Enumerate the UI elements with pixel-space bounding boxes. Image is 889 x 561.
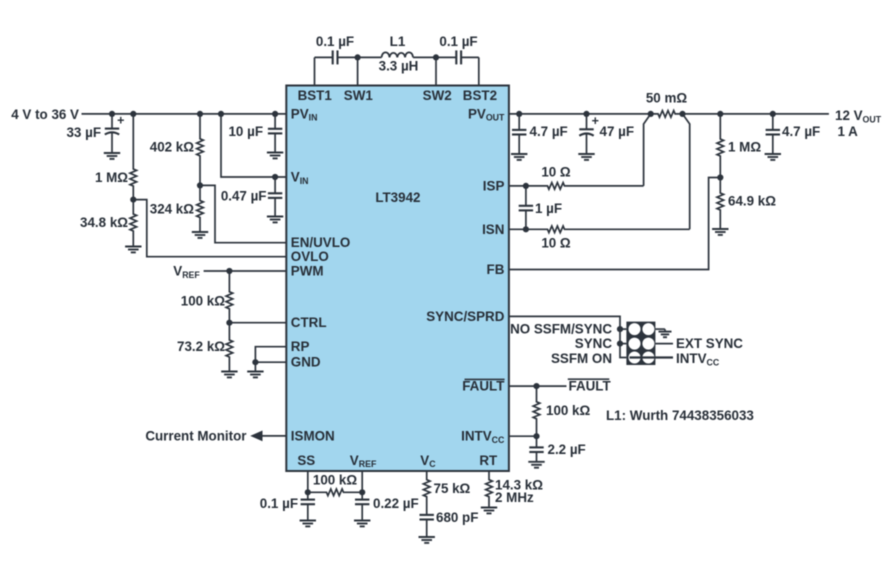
label INTVCC node bbox=[676, 351, 720, 367]
node R11-R12 junction bbox=[717, 174, 723, 180]
pin label GND bbox=[291, 355, 321, 370]
IC name label LT3942 bbox=[375, 190, 420, 205]
capacitor C9 4.7uF bbox=[512, 114, 526, 154]
svg-text:L1: Wurth 74438356033: L1: Wurth 74438356033 bbox=[606, 408, 754, 423]
wire BST2 stub bbox=[478, 57, 480, 85]
pin label ISMON bbox=[291, 428, 335, 443]
svg-text:0.1 µF: 0.1 µF bbox=[439, 34, 477, 49]
node rail junction at R3 bbox=[197, 111, 203, 117]
label R4 324k bbox=[150, 202, 195, 217]
resistor R2 34.8k bbox=[130, 200, 137, 247]
capacitor C10 47uF polarized bbox=[579, 114, 593, 154]
pin label VIN bbox=[291, 170, 309, 186]
pin label ISP bbox=[483, 178, 505, 193]
svg-text:0.47 µF: 0.47 µF bbox=[221, 189, 267, 204]
label VREF node bbox=[173, 264, 200, 280]
label R13 10 Ohm bbox=[541, 165, 571, 180]
op-amp U1 LT3942 regulator IC body bbox=[286, 86, 509, 472]
svg-text:ISP: ISP bbox=[483, 178, 505, 193]
svg-text:402 kΩ: 402 kΩ bbox=[150, 140, 195, 155]
ground under C13 bbox=[528, 462, 544, 468]
svg-text:2 MHz: 2 MHz bbox=[495, 490, 534, 505]
label R9 14.3k bbox=[495, 478, 543, 493]
svg-text:64.9 kΩ: 64.9 kΩ bbox=[728, 194, 776, 209]
label L1 value 3.3uH bbox=[379, 59, 419, 74]
ground under C9 bbox=[511, 154, 527, 160]
svg-text:ISN: ISN bbox=[482, 222, 504, 237]
ground under C12 bbox=[765, 154, 781, 160]
node INTVCC junction bbox=[533, 433, 539, 439]
pin label ISN bbox=[482, 222, 504, 237]
wire ISP kelvin bbox=[644, 114, 651, 186]
resistor R5 100k bbox=[226, 271, 233, 323]
ground under C4 bbox=[267, 153, 283, 159]
wire VIN branch bbox=[221, 114, 286, 177]
svg-text:SSFM ON: SSFM ON bbox=[551, 351, 612, 366]
svg-text:10 Ω: 10 Ω bbox=[541, 236, 571, 251]
wire SW1 to L1 bbox=[358, 56, 382, 58]
label C4 10uF bbox=[228, 124, 263, 139]
pin label SS bbox=[297, 453, 315, 468]
capacitor C6 0.1uF on SS bbox=[301, 492, 315, 520]
node PWM junction bbox=[226, 268, 232, 274]
wire stub EXT SYNC bbox=[655, 343, 673, 345]
svg-text:EXT SYNC: EXT SYNC bbox=[676, 336, 743, 351]
label R7 100k bbox=[313, 473, 358, 488]
wire ISMON net bbox=[262, 435, 286, 437]
svg-text:34.8 kΩ: 34.8 kΩ bbox=[80, 215, 128, 230]
svg-text:BST1: BST1 bbox=[298, 88, 333, 103]
ground under R4 bbox=[192, 232, 208, 238]
svg-text:CTRL: CTRL bbox=[291, 315, 327, 330]
label C5 0.47uF bbox=[221, 189, 267, 204]
wire SW2 stub bbox=[435, 57, 437, 85]
label SYNC bbox=[575, 336, 613, 351]
wire EN/UVLO net bbox=[200, 185, 286, 242]
capacitor C12 4.7uF bbox=[766, 114, 780, 154]
capacitor C7 0.22uF on VREF bbox=[355, 492, 369, 520]
svg-text:100 kΩ: 100 kΩ bbox=[546, 403, 591, 418]
label R12 64.9k bbox=[728, 194, 776, 209]
node SW1 junction bbox=[355, 54, 361, 60]
ground under C8 bbox=[419, 537, 435, 543]
label R3 402k bbox=[150, 140, 195, 155]
svg-text:PWM: PWM bbox=[291, 264, 324, 279]
wire SYNC/SPRD net bbox=[509, 316, 627, 357]
pin label SW1 bbox=[344, 88, 374, 103]
wire input rail bbox=[82, 113, 287, 115]
node ISN junction bbox=[523, 226, 529, 232]
wire SS drop bbox=[307, 471, 309, 492]
ground under C6 bbox=[300, 521, 316, 527]
node SYNC junction bbox=[617, 341, 627, 347]
svg-text:4.7 µF: 4.7 µF bbox=[782, 124, 820, 139]
label R9 2MHz bbox=[495, 490, 534, 505]
wire INTVCC net bbox=[509, 435, 537, 437]
pin label VREF bottom bbox=[350, 453, 377, 469]
label R8 75k bbox=[434, 481, 471, 496]
svg-text:680 pF: 680 pF bbox=[436, 510, 478, 525]
pin label FB bbox=[487, 262, 505, 277]
svg-text:4.7 µF: 4.7 µF bbox=[530, 124, 568, 139]
label FAULT node with overline bbox=[568, 379, 612, 394]
node GND junction bbox=[252, 359, 258, 365]
pin label BST1 bbox=[298, 88, 333, 103]
svg-text:+: + bbox=[592, 114, 599, 128]
ground under R6 bbox=[221, 372, 237, 378]
svg-text:0.1 µF: 0.1 µF bbox=[316, 34, 354, 49]
label R5 100k bbox=[181, 294, 226, 309]
label C10 47uF bbox=[600, 124, 635, 139]
svg-text:75 kΩ: 75 kΩ bbox=[434, 481, 471, 496]
svg-text:VREF​: VREF​ bbox=[173, 264, 200, 280]
node CTRL junction bbox=[226, 320, 232, 326]
label C9 4.7uF bbox=[530, 124, 568, 139]
pin label SW2 bbox=[423, 88, 452, 103]
capacitor C4 10uF bbox=[268, 114, 282, 153]
label note L1 Wurth bbox=[606, 408, 754, 423]
node FAULT junction bbox=[533, 383, 539, 389]
resistor R11 1M bbox=[717, 114, 724, 178]
pin label PWM bbox=[291, 264, 324, 279]
node rail junction at C9 bbox=[516, 111, 522, 117]
resistor R7 100k SS-VREF bbox=[308, 489, 362, 496]
svg-text:FAULT: FAULT bbox=[462, 379, 505, 394]
resistor R15 100k bbox=[533, 386, 540, 436]
label L1 bbox=[390, 34, 406, 49]
svg-text:10 Ω: 10 Ω bbox=[541, 165, 571, 180]
node rail junction VIN branch bbox=[218, 111, 224, 117]
resistor R10 50mOhm sense bbox=[651, 111, 683, 118]
label R15 100k bbox=[546, 403, 591, 418]
arrow Current Monitor bbox=[250, 431, 262, 442]
label Current Monitor bbox=[145, 428, 247, 443]
svg-text:100 kΩ: 100 kΩ bbox=[181, 294, 226, 309]
label C2 0.1uF bbox=[439, 34, 477, 49]
node rail junction at C10 bbox=[583, 111, 589, 117]
label input 4V to 36V bbox=[11, 107, 79, 122]
node SW2 junction bbox=[433, 54, 439, 60]
label R14 10 Ohm bbox=[541, 236, 571, 251]
node ISP junction bbox=[523, 183, 529, 189]
capacitor C13 2.2uF bbox=[529, 436, 543, 462]
label R2 34.8k bbox=[80, 215, 128, 230]
wire output rail right bbox=[683, 113, 829, 115]
capacitor C2 0.1uF SW2-BST2 bbox=[436, 50, 479, 64]
resistor R1 1M bbox=[130, 114, 137, 200]
wire ISN to pin bbox=[509, 228, 526, 230]
svg-text:2.2 µF: 2.2 µF bbox=[548, 442, 586, 457]
wire BST1 stub bbox=[314, 57, 316, 85]
label C3 33uF bbox=[66, 125, 101, 140]
wire FB net bbox=[509, 178, 720, 270]
svg-text:GND: GND bbox=[291, 355, 321, 370]
ground under C7 bbox=[354, 521, 370, 527]
label NO SSFM/SYNC bbox=[510, 322, 612, 337]
pin label BST2 bbox=[463, 88, 497, 103]
svg-text:1 MΩ: 1 MΩ bbox=[728, 140, 761, 155]
node R3-R4 junction bbox=[197, 182, 203, 188]
svg-text:INTVCC​: INTVCC​ bbox=[676, 351, 720, 367]
pin label SYNC/SPRD bbox=[426, 309, 504, 324]
svg-text:50 mΩ: 50 mΩ bbox=[646, 91, 688, 106]
ground under C3 bbox=[104, 153, 120, 159]
svg-text:+: + bbox=[117, 113, 124, 127]
svg-text:SYNC/SPRD: SYNC/SPRD bbox=[426, 309, 504, 324]
wire SW1 stub bbox=[357, 57, 359, 85]
label C1 0.1uF bbox=[316, 34, 354, 49]
capacitor C1 0.1uF BST1-SW1 bbox=[315, 50, 358, 64]
resistor R14 10 Ohm ISN bbox=[526, 226, 690, 233]
node rail junction at R1 bbox=[130, 111, 136, 117]
svg-text:0.1 µF: 0.1 µF bbox=[260, 496, 298, 511]
svg-text:100 kΩ: 100 kΩ bbox=[313, 473, 358, 488]
wire FAULT net bbox=[509, 385, 567, 387]
wire RP net bbox=[255, 347, 286, 363]
label C13 2.2uF bbox=[548, 442, 586, 457]
resistor R12 64.9k bbox=[717, 178, 724, 230]
node sense right junction bbox=[679, 111, 685, 117]
inductor L1 3.3uH bbox=[382, 52, 413, 57]
wire VREF drop bbox=[361, 471, 363, 492]
wire CTRL net bbox=[229, 322, 286, 324]
pin label PVIN bbox=[291, 106, 318, 122]
node rail junction at C12 bbox=[770, 111, 776, 117]
svg-text:SW1: SW1 bbox=[344, 88, 374, 103]
svg-text:324 kΩ: 324 kΩ bbox=[150, 202, 195, 217]
svg-text:Current Monitor: Current Monitor bbox=[145, 428, 247, 443]
svg-text:RP: RP bbox=[291, 339, 310, 354]
resistor R3 402k bbox=[197, 114, 204, 185]
svg-text:LT3942: LT3942 bbox=[375, 190, 420, 205]
svg-text:SYNC: SYNC bbox=[575, 336, 613, 351]
svg-text:33 µF: 33 µF bbox=[66, 125, 101, 140]
svg-text:4 V to 36 V: 4 V to 36 V bbox=[11, 107, 79, 122]
ground under R2 bbox=[125, 247, 141, 253]
pin label VC bbox=[420, 453, 436, 469]
node VREF junction bbox=[359, 489, 365, 495]
svg-text:1 A: 1 A bbox=[838, 124, 859, 139]
label C10 plus sign bbox=[592, 114, 599, 128]
svg-text:SW2: SW2 bbox=[423, 88, 452, 103]
label R11 1M bbox=[728, 140, 761, 155]
svg-text:SS: SS bbox=[297, 453, 315, 468]
label C11 1uF bbox=[535, 201, 562, 216]
pin label EN/UVLO bbox=[291, 235, 351, 250]
svg-text:ISMON: ISMON bbox=[291, 428, 335, 443]
svg-text:EN/UVLO: EN/UVLO bbox=[291, 235, 351, 250]
label C7 0.22uF bbox=[373, 496, 419, 511]
resistor R13 10 Ohm ISP bbox=[526, 183, 644, 190]
wire stub INTVCC bbox=[655, 356, 673, 358]
wire VREF to PWM bbox=[204, 270, 287, 272]
wire GND net bbox=[255, 361, 286, 363]
label C3 plus sign bbox=[117, 113, 124, 127]
label output 1A bbox=[838, 124, 859, 139]
resistor R9 14.3k on RT bbox=[486, 471, 493, 508]
label C12 4.7uF bbox=[782, 124, 820, 139]
svg-text:1 µF: 1 µF bbox=[535, 201, 562, 216]
svg-text:OVLO: OVLO bbox=[291, 249, 329, 264]
wire ISP to pin bbox=[509, 185, 526, 187]
ground under GND pin bbox=[247, 362, 263, 377]
label SSFM ON bbox=[551, 351, 612, 366]
node sense left junction bbox=[648, 111, 654, 117]
svg-text:12 VOUT​: 12 VOUT​ bbox=[835, 108, 882, 124]
svg-text:BST2: BST2 bbox=[463, 88, 497, 103]
svg-text:NO SSFM/SYNC: NO SSFM/SYNC bbox=[510, 322, 612, 337]
svg-text:1 MΩ: 1 MΩ bbox=[95, 170, 128, 185]
pin label FAULT with overline bbox=[462, 379, 505, 394]
label R6 73.2k bbox=[177, 339, 225, 354]
node rail junction at C4 bbox=[272, 111, 278, 117]
ground at JP1 bbox=[659, 329, 672, 337]
label R1 1M bbox=[95, 170, 128, 185]
ground under R9 bbox=[481, 508, 497, 514]
node R1-R2 junction bbox=[130, 197, 136, 203]
resistor R4 324k bbox=[197, 185, 204, 232]
pin label RT bbox=[479, 453, 498, 468]
label output 12VOUT bbox=[835, 108, 882, 124]
connector JP1 jumper block bbox=[626, 322, 655, 365]
label C6 0.1uF bbox=[260, 496, 298, 511]
ground under C10 bbox=[578, 154, 594, 160]
svg-text:RT: RT bbox=[479, 453, 498, 468]
svg-text:47 µF: 47 µF bbox=[600, 124, 635, 139]
svg-text:FAULT: FAULT bbox=[569, 379, 612, 394]
pin label INTVCC bbox=[461, 429, 505, 445]
node rail junction at C3 bbox=[109, 111, 115, 117]
wire OVLO net bbox=[133, 200, 286, 257]
resistor R6 73.2k bbox=[226, 323, 233, 372]
svg-text:L1: L1 bbox=[390, 34, 406, 49]
wire L1 to SW2 bbox=[413, 56, 436, 58]
wire ISN kelvin bbox=[683, 114, 690, 229]
pin label CTRL bbox=[291, 315, 327, 330]
ground under C5 bbox=[267, 217, 283, 223]
wire output rail left bbox=[509, 113, 651, 115]
capacitor C5 0.47uF bbox=[268, 177, 282, 217]
pin label OVLO bbox=[291, 249, 329, 264]
pin label PVOUT bbox=[468, 106, 505, 122]
label EXT SYNC bbox=[676, 336, 743, 351]
wire jumper bar SSFM ON bbox=[630, 356, 656, 358]
capacitor C8 680pF bbox=[420, 503, 434, 537]
svg-text:3.3 µH: 3.3 µH bbox=[379, 59, 419, 74]
node NO SSFM junction bbox=[617, 326, 627, 332]
capacitor C3 33uF polarized bbox=[105, 114, 119, 153]
pin label RP bbox=[291, 339, 310, 354]
svg-text:73.2 kΩ: 73.2 kΩ bbox=[177, 339, 225, 354]
node VIN junction at C5 bbox=[272, 174, 278, 180]
label R10 50mOhm bbox=[646, 91, 688, 106]
svg-text:FB: FB bbox=[487, 262, 505, 277]
node rail junction at R11 bbox=[717, 111, 723, 117]
svg-text:0.22 µF: 0.22 µF bbox=[373, 496, 419, 511]
svg-text:10 µF: 10 µF bbox=[228, 124, 263, 139]
label C8 680pF bbox=[436, 510, 478, 525]
capacitor C11 1uF ISP-ISN bbox=[519, 186, 533, 229]
resistor R8 75k on VC bbox=[423, 471, 430, 503]
ground under R12 bbox=[712, 229, 728, 235]
wire stub to ground bbox=[655, 328, 665, 330]
node SS junction bbox=[305, 489, 311, 495]
